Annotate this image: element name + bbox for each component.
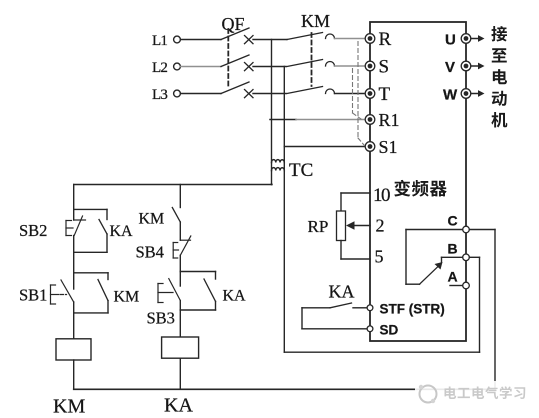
terminal L2 <box>174 63 181 70</box>
pushbutton SB1 actuator bracket <box>50 285 52 304</box>
parallel branch box SB1/KM top <box>74 272 108 274</box>
svg-text:L3: L3 <box>152 87 167 103</box>
parallel branch box SB2/KA top <box>74 208 107 210</box>
wire KA left lead <box>302 307 330 309</box>
svg-text:R: R <box>379 29 392 50</box>
wire C left branch <box>406 229 463 231</box>
contactor KM aux contact blade <box>107 273 109 280</box>
transformer TC primary winding <box>272 160 285 163</box>
parallel branch box SB3/KA bottom <box>180 309 215 311</box>
pushbutton SB3 actuator bracket <box>157 284 159 303</box>
inverter terminal W <box>461 89 471 99</box>
inverter terminal STF <box>367 305 373 311</box>
inverter terminal R1 <box>365 115 375 125</box>
wire left rail to KM coil <box>73 313 75 339</box>
svg-text:KM: KM <box>53 396 85 418</box>
pushbutton SB2 upper lead + seat <box>73 209 75 220</box>
wire bus1 to terminal R1 <box>270 119 296 121</box>
RP wiper arrow to pin 2 <box>352 225 370 227</box>
wire KM coil to bottom rail <box>73 360 75 389</box>
svg-text:QF: QF <box>222 14 245 34</box>
svg-text:KM: KM <box>301 11 330 31</box>
wire KM pole 2 to inverter <box>335 65 365 67</box>
contactor KM linkage (dashed) <box>311 33 313 86</box>
svg-text:2: 2 <box>376 216 385 236</box>
svg-text:L2: L2 <box>152 60 167 76</box>
wire right rail to KA coil <box>179 310 181 337</box>
terminal L1 <box>174 36 181 43</box>
selector switch blade (points to B) <box>420 267 439 285</box>
wire L3 to QF <box>181 93 222 95</box>
inverter terminal R <box>365 34 375 44</box>
svg-text:STF (STR): STF (STR) <box>380 302 445 317</box>
pushbutton SB2 actuator bracket <box>65 221 67 236</box>
svg-text:KA: KA <box>164 395 193 417</box>
pushbutton SB1 blade (NC) <box>61 280 74 302</box>
wire outer loop bottom (B to TC secondary) <box>284 351 479 353</box>
wire B stub <box>442 256 463 258</box>
inverter terminal S <box>365 61 375 71</box>
wire control top rail <box>74 184 272 186</box>
watermark backdrop <box>415 381 539 411</box>
pushbutton SB3 lower lead <box>179 301 181 311</box>
svg-text:W: W <box>443 87 458 104</box>
svg-text:TC: TC <box>289 160 313 181</box>
wire KM pole 3 to inverter <box>335 93 365 95</box>
wire STF lead <box>353 307 367 309</box>
parallel branch box SB2/KA bottom <box>74 251 107 253</box>
contactor KM aux blade <box>172 208 180 223</box>
breaker QF pole L2 blade <box>221 55 249 67</box>
contactor KM main contact pole 2 blade <box>287 60 323 67</box>
wire branch right vertical <box>106 209 108 219</box>
wire bus2 to terminal S1 <box>284 146 364 148</box>
svg-text:SB3: SB3 <box>147 309 175 328</box>
svg-text:B: B <box>448 240 458 256</box>
inverter terminal V <box>461 61 471 71</box>
note 接至电动机 (to motor) <box>491 26 507 42</box>
inverter terminal B <box>463 254 470 261</box>
relay contact KA blade <box>330 303 352 308</box>
relay contact KA (self-hold) blade <box>99 220 107 235</box>
breaker QF pole L3 fixed contact X <box>245 90 254 98</box>
inverter terminal C <box>463 226 470 233</box>
wire KA to SD (left bracket) <box>301 308 303 329</box>
breaker QF pole L3 blade <box>221 82 249 94</box>
relay contact KA aux blade <box>215 272 217 280</box>
wire L2 to QF <box>181 66 222 68</box>
pushbutton SB4 blade (NC) <box>180 236 191 255</box>
parallel branch box SB3/KA top <box>180 271 215 273</box>
svg-text:SB2: SB2 <box>19 221 47 240</box>
svg-text:KA: KA <box>329 282 355 302</box>
svg-text:KA: KA <box>110 223 134 240</box>
inverter U1 (变频器) body <box>370 22 466 341</box>
pushbutton SB2 lower lead <box>73 236 75 253</box>
pushbutton SB3 blade <box>169 279 181 301</box>
inverter terminal SD <box>367 326 373 332</box>
svg-text:SB1: SB1 <box>19 286 47 305</box>
inverter terminal S1 <box>365 142 375 152</box>
wire SB4 to branch <box>179 255 181 271</box>
svg-text:10: 10 <box>373 185 390 206</box>
watermark text 电工电气学习 <box>444 387 456 399</box>
parallel branch box SB1/KM bottom <box>74 312 108 314</box>
svg-text:L1: L1 <box>152 33 167 49</box>
svg-text:C: C <box>448 213 458 229</box>
svg-text:5: 5 <box>375 247 384 267</box>
wire control bottom rail <box>74 388 495 390</box>
coil KA <box>162 337 199 358</box>
svg-text:KA: KA <box>223 288 247 305</box>
wire left rail middle <box>73 252 75 272</box>
wire switch pivot branch <box>405 230 407 285</box>
svg-text:V: V <box>445 59 455 76</box>
svg-text:KM: KM <box>114 289 140 306</box>
wire RP bottom to pin 5 <box>340 241 342 260</box>
wire QF to KM pole L3 <box>253 93 286 95</box>
contactor KM main contact pole 3 blade <box>287 87 323 94</box>
contactor KM main contact pole 1 blade <box>287 33 323 40</box>
contactor KM main contact pole 2 arc <box>326 62 335 67</box>
wire left rail upper <box>73 185 75 210</box>
wire QF to KM pole L2 <box>253 66 286 68</box>
svg-text:KM: KM <box>139 211 165 228</box>
breaker QF pole L1 fixed contact X <box>245 36 254 44</box>
inverter terminal T <box>365 89 375 99</box>
coil KM <box>56 339 91 360</box>
breaker QF linkage (dashed) <box>227 29 229 89</box>
output arrow U <box>471 38 479 40</box>
pushbutton SB4 actuator bracket <box>172 243 174 259</box>
svg-text:T: T <box>379 84 391 105</box>
svg-text:A: A <box>448 269 458 285</box>
wire C right to down bus <box>470 229 496 231</box>
contactor KM main contact pole 1 arc <box>326 34 335 39</box>
transformer TC secondary winding <box>272 168 285 171</box>
potentiometer RP body <box>337 211 346 241</box>
svg-text:R1: R1 <box>379 110 400 130</box>
wire B right to outer loop <box>470 256 480 258</box>
breaker QF pole L1 blade <box>221 28 249 40</box>
output arrow W <box>471 93 479 95</box>
wire A stub <box>450 285 463 287</box>
svg-text:S1: S1 <box>379 137 398 157</box>
wire bus1 vertical (L1 tap down to control rail) <box>271 40 273 185</box>
wire RP top to pin 10 <box>341 192 370 194</box>
svg-text:S: S <box>379 57 390 78</box>
output arrow V <box>471 65 479 67</box>
svg-text:SB4: SB4 <box>136 243 164 262</box>
watermark logo <box>420 386 437 403</box>
dashed control-power wire to S1 <box>357 42 359 139</box>
inverter terminal A <box>463 282 470 289</box>
svg-text:SD: SD <box>380 323 399 338</box>
pushbutton SB2 blade <box>74 216 82 236</box>
wire KM pole 1 to inverter <box>335 38 365 40</box>
contactor KM main contact pole 3 arc <box>326 89 335 94</box>
terminal L3 <box>174 90 181 97</box>
inverter label 变频器 <box>394 180 410 197</box>
inverter terminal U <box>461 34 471 44</box>
breaker QF pole L2 fixed contact X <box>245 63 254 71</box>
pushbutton SB1 lower lead <box>73 302 75 313</box>
pushbutton SB1 upper lead <box>73 273 75 289</box>
svg-text:RP: RP <box>308 217 329 236</box>
wire right rail upper <box>179 185 181 208</box>
pushbutton SB4 seat tick <box>180 239 190 241</box>
wire L1 to QF <box>181 39 222 41</box>
wire KA coil to bottom rail <box>179 358 181 389</box>
pushbutton SB3 upper lead <box>179 272 181 287</box>
wire QF to KM pole L1 <box>253 39 287 41</box>
svg-text:U: U <box>445 32 456 49</box>
wire bus2 vertical (L2 tap down to outer loop) <box>283 67 285 353</box>
wire C-bus vertical down to control common <box>494 230 496 390</box>
dashed control-power wire to R1 <box>352 69 354 114</box>
